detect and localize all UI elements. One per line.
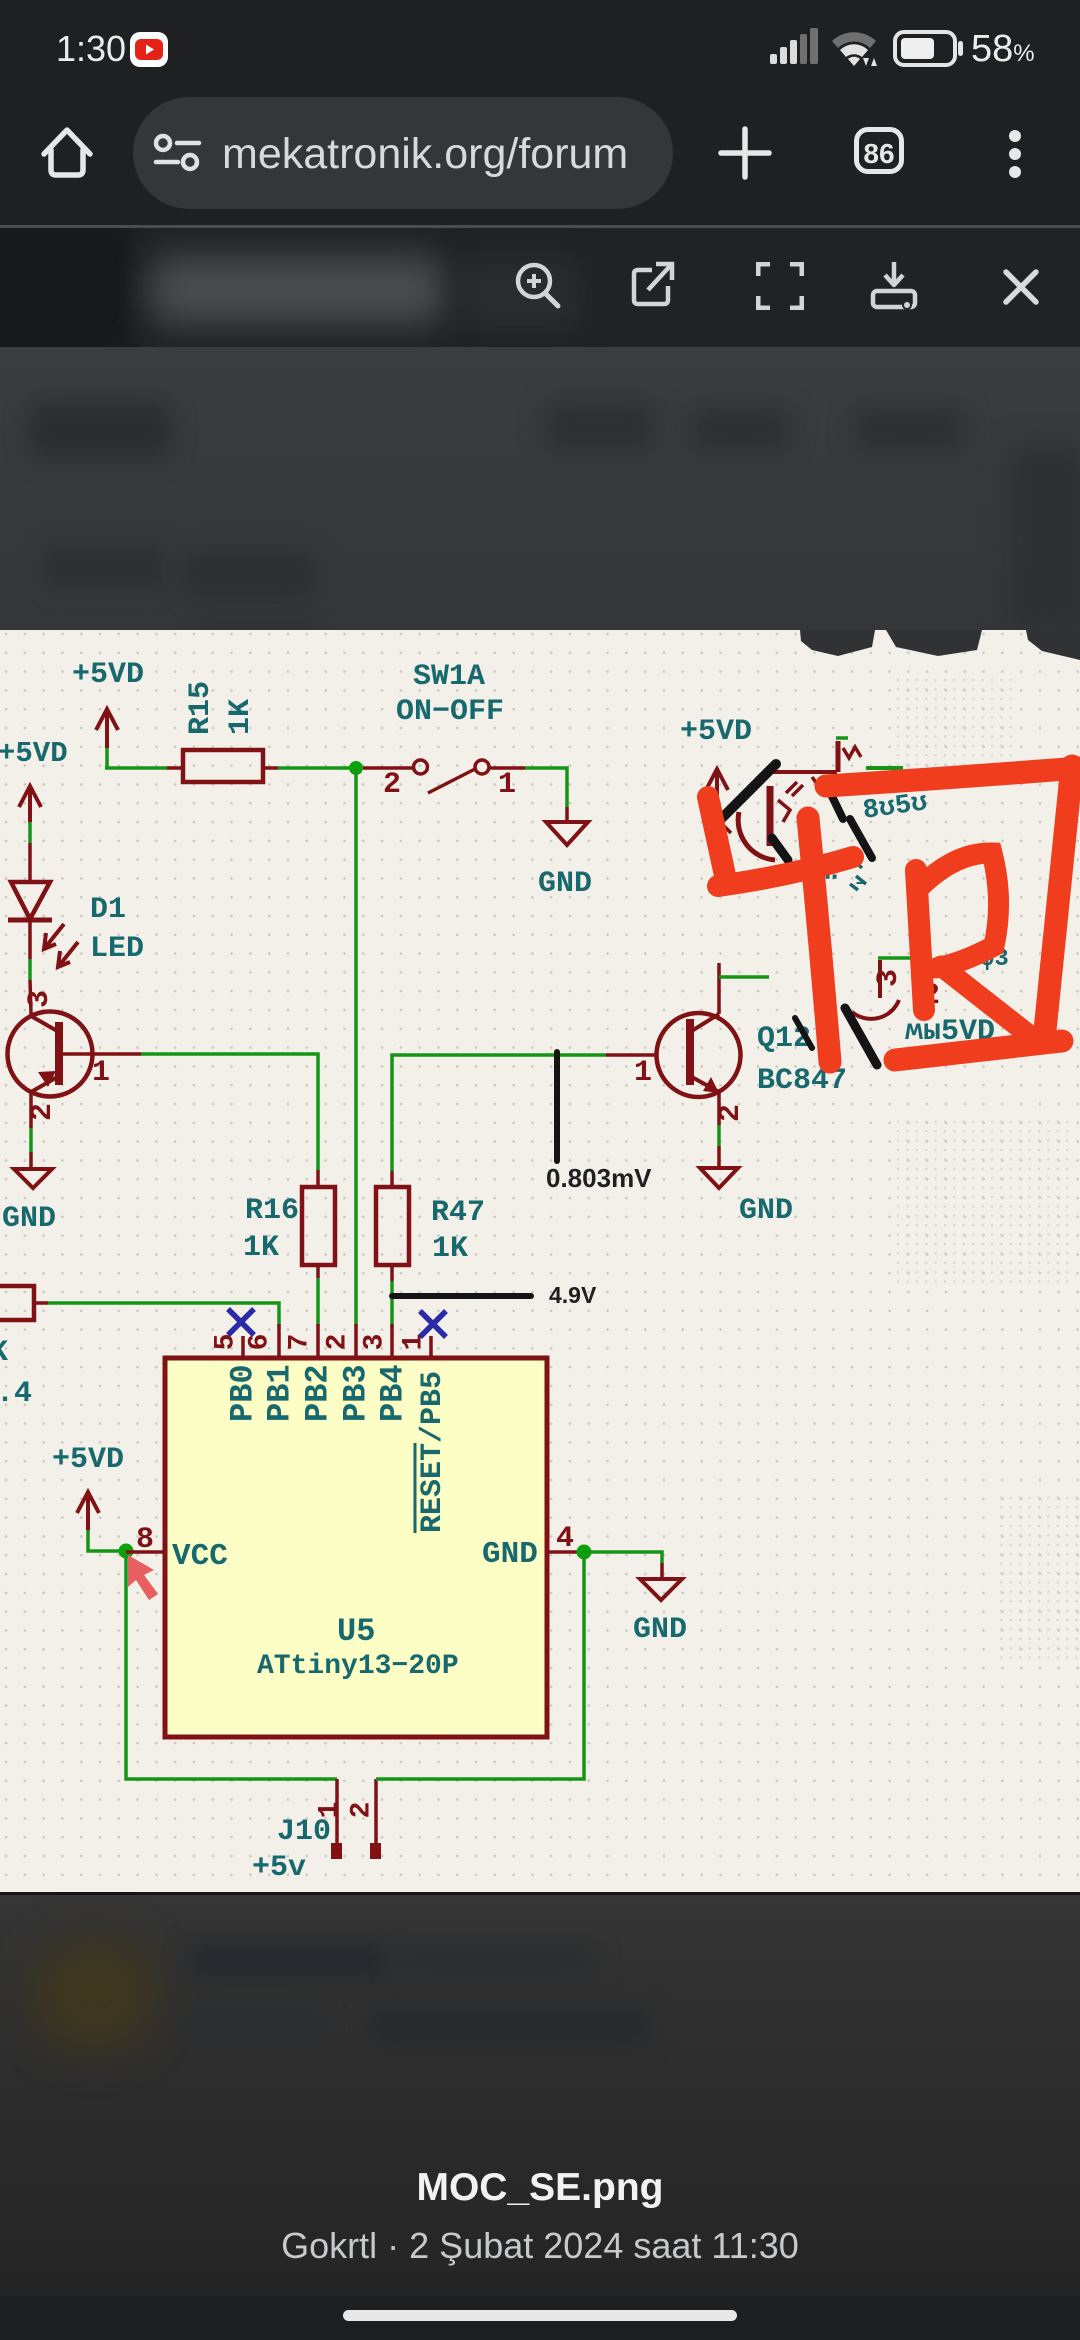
black ink stroke 2: [772, 838, 788, 860]
annotation arrow red (vcc): [128, 1555, 158, 1600]
power arrow +5VD vcc: [77, 1492, 99, 1530]
svg-text:GND: GND: [633, 1613, 687, 1647]
battery: [893, 30, 968, 68]
svg-text:4.9V: 4.9V: [549, 1282, 597, 1308]
wire LED to Q2: [28, 920, 32, 959]
resistor R47: [376, 1171, 485, 1281]
wire R15 to junction: [278, 766, 356, 770]
svg-text:3: 3: [872, 969, 906, 987]
ground symbol (IC right): [640, 1579, 682, 1600]
wire Q2 emitter to gnd: [29, 1092, 33, 1128]
wire pin4 to ground: [584, 1552, 662, 1563]
connector J10 pin1 pad: [331, 1843, 342, 1859]
IC pin stub 8: [126, 1550, 165, 1554]
jagged dark edge blob 2: [886, 630, 982, 656]
erased component remnants: [719, 738, 911, 1019]
youtube notification icon: [129, 30, 169, 69]
red marker stroke: bracket bottom: [895, 1041, 1062, 1060]
svg-text:1: 1: [92, 1056, 110, 1090]
junction node gnd4: [577, 1545, 592, 1560]
transistor Q2 emitter arrow: [38, 1071, 56, 1087]
wire to LED: [28, 843, 32, 882]
svg-text:PB0: PB0: [225, 1364, 262, 1422]
ground symbol (switch): [546, 822, 588, 845]
svg-text:J10: J10: [277, 1815, 331, 1849]
junction node vcc: [119, 1544, 134, 1559]
wire junction down to pin2: [354, 768, 358, 1326]
home icon: [38, 120, 96, 184]
svg-text:ON−OFF: ON−OFF: [396, 695, 504, 729]
svg-text:R15: R15: [184, 681, 218, 735]
svg-text:.4: .4: [0, 1377, 32, 1411]
black ink stroke 4: [850, 819, 872, 858]
svg-text:+5VD: +5VD: [72, 658, 144, 692]
svg-text:1K: 1K: [224, 699, 258, 735]
svg-text:2: 2: [383, 768, 401, 802]
svg-text:VCC: VCC: [172, 1539, 228, 1574]
IC pin stub 6: [277, 1324, 281, 1358]
probe mark 4.9V line: [392, 1293, 531, 1299]
black ink stroke over Q12: [845, 1008, 877, 1065]
signal bars: [770, 28, 826, 68]
svg-text:+5VD: +5VD: [52, 1443, 124, 1477]
svg-text:GND: GND: [2, 1202, 56, 1236]
IC pin stub 1: [429, 1336, 433, 1358]
wire R47 top to Q1 base: [392, 1055, 606, 1171]
no-connect X pin 5: [228, 1309, 254, 1335]
red marker stroke: 4 stem: [808, 818, 830, 1062]
svg-text:4: 4: [556, 1522, 574, 1556]
svg-text:3: 3: [23, 990, 57, 1008]
wire pin4 down to J10 pin2: [376, 1555, 584, 1779]
svg-text:SW1A: SW1A: [413, 660, 485, 694]
wire Q2 base to R16: [141, 1054, 318, 1170]
red marker stroke: R leg: [941, 966, 1038, 1042]
IC U5 body: [165, 1358, 547, 1737]
transistor Q1 (NPN right, BC847): [657, 963, 741, 1097]
no-connect X pin 1: [420, 1311, 446, 1337]
red marker stroke: bracket right: [1044, 766, 1072, 1040]
black ink stroke small over Q12 text: [795, 1018, 812, 1048]
svg-text:PB3: PB3: [338, 1364, 375, 1422]
kebab menu: [1002, 125, 1028, 183]
svg-text:R47: R47: [431, 1196, 485, 1230]
svg-text:PB4: PB4: [375, 1364, 412, 1422]
ground symbol (left): [14, 1169, 52, 1188]
svg-text:6: 6: [245, 1334, 276, 1351]
wifi icon: [830, 28, 882, 70]
svg-text:5: 5: [211, 1334, 242, 1351]
artifact dot patch right-mid: [897, 1120, 1072, 1288]
wire vcc down to J10: [126, 1555, 337, 1779]
power arrow +5VD right: [706, 769, 728, 806]
wire R15 left: [105, 766, 167, 770]
open-in-new icon: [628, 260, 676, 312]
svg-text:1K: 1K: [432, 1232, 468, 1266]
wire green stub led top: [28, 822, 32, 843]
svg-text:ATtiny13−20P: ATtiny13−20P: [257, 1651, 459, 1682]
jagged dark edge blob 3: [1026, 630, 1080, 660]
resistor R16: [243, 1170, 335, 1278]
svg-text:R16: R16: [245, 1194, 299, 1228]
svg-text:0.803mV: 0.803mV: [546, 1163, 652, 1193]
black ink stroke 3: [827, 786, 843, 819]
ground sw stem: [565, 807, 569, 822]
svg-text:+5VD: +5VD: [680, 715, 752, 749]
svg-text:PB2: PB2: [300, 1364, 337, 1422]
power arrow +5VD top: [96, 709, 118, 748]
probe mark 0.803mV line: [554, 1052, 560, 1161]
tab counter: [854, 127, 904, 174]
svg-text:1: 1: [634, 1056, 652, 1090]
svg-text:+5VD: +5VD: [0, 737, 68, 770]
svg-text:D1: D1: [90, 893, 126, 927]
red marker stroke: 4 left: [708, 797, 726, 880]
svg-text:2: 2: [347, 1802, 378, 1819]
svg-text:LED: LED: [90, 932, 144, 966]
wire vcc arrow to junction: [88, 1530, 120, 1551]
transistor Q1 emitter arrow: [703, 1077, 719, 1093]
svg-text:2: 2: [323, 1334, 354, 1351]
red marker stroke: 4 crossbar: [718, 857, 853, 886]
wire left resistor to pin6: [48, 1303, 279, 1326]
svg-text:U5: U5: [337, 1613, 375, 1650]
junction node: [349, 761, 363, 775]
ground symbol (right): [700, 1168, 738, 1188]
plus: [718, 126, 772, 180]
svg-text:1K: 1K: [243, 1231, 279, 1265]
svg-text:7: 7: [285, 1334, 316, 1351]
switch SW1A: [363, 760, 525, 793]
resistor partial left edge: [0, 1286, 34, 1320]
wire Q1 emitter to gnd: [717, 1092, 721, 1125]
IC pin stub 2: [354, 1324, 358, 1358]
power arrow +5VD left: [19, 786, 41, 822]
download icon: [868, 258, 920, 314]
IC pin stub 4: [547, 1550, 578, 1554]
red marker stroke: R vertical: [916, 870, 924, 1010]
url pill: [133, 97, 673, 209]
RESET overline: [414, 1443, 417, 1533]
fullscreen icon: [756, 262, 804, 310]
svg-text:PB1: PB1: [262, 1364, 299, 1422]
red marker stroke: R bowl: [919, 853, 999, 968]
svg-text:1: 1: [399, 1334, 430, 1351]
svg-text:GND: GND: [538, 867, 592, 901]
svg-text:3: 3: [360, 1334, 391, 1351]
jagged dark edge blob 1: [800, 630, 875, 656]
svg-text:K: K: [0, 1336, 8, 1370]
black ink stroke 1: [722, 764, 776, 818]
IC pin stub 3: [390, 1324, 394, 1358]
svg-text:8: 8: [136, 1523, 154, 1557]
svg-text:RESET/PB5: RESET/PB5: [416, 1371, 450, 1533]
wire to Q1 base: [606, 1053, 656, 1057]
svg-text:1: 1: [498, 768, 516, 802]
svg-text:GND: GND: [739, 1194, 793, 1228]
transistor Q2 (PNP left): [8, 1012, 142, 1097]
resistor R15: [167, 681, 278, 782]
erased remnant teal scribbles: [824, 788, 1009, 973]
connector J10 pin2 pad: [370, 1843, 381, 1859]
artifact dot patch right-top: [893, 678, 1018, 766]
IC pin stub 5: [241, 1336, 245, 1358]
LED D1: [8, 882, 78, 967]
red marker stroke: bracket top: [826, 768, 1080, 786]
svg-text:+5v: +5v: [252, 1851, 306, 1885]
wire switch to gnd: [525, 768, 567, 807]
wire R16 to pin7: [316, 1278, 320, 1326]
wire R47 to pin3: [390, 1281, 394, 1326]
connector J10 pin1 stub: [335, 1779, 339, 1843]
connector J10 pin2 stub: [374, 1779, 378, 1843]
svg-text:GND: GND: [482, 1537, 538, 1572]
IC pin stub 7: [316, 1324, 320, 1358]
zoom-in icon: [512, 260, 564, 312]
close icon: [1002, 268, 1040, 306]
wire stub green top arrow: [105, 748, 109, 768]
